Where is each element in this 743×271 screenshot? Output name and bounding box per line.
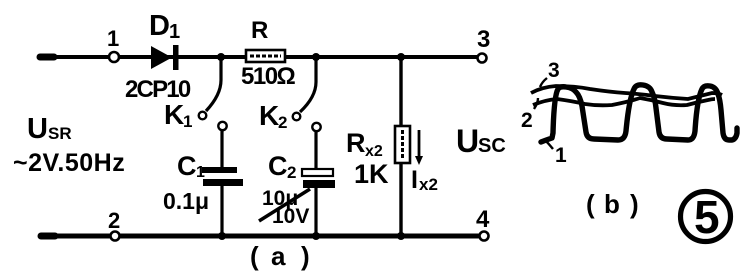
switch K2 xyxy=(259,57,321,132)
wire top rail xyxy=(40,55,480,59)
junction bottom C1 xyxy=(218,232,226,240)
wire C2 to bottom rail xyxy=(314,188,317,236)
svg-text:): ) xyxy=(301,241,310,271)
svg-text:b: b xyxy=(604,189,620,219)
current arrow Ix2 xyxy=(411,130,438,194)
svg-text:x2: x2 xyxy=(365,143,383,160)
svg-text:~2V.50Hz: ~2V.50Hz xyxy=(13,149,125,177)
label (b) xyxy=(586,189,639,219)
wire K1 to C1 xyxy=(220,130,223,167)
waveform label 3 xyxy=(540,59,560,87)
svg-text:a: a xyxy=(271,241,286,271)
svg-text:U: U xyxy=(456,123,479,159)
label (a) xyxy=(250,241,310,271)
capacitor C2 xyxy=(259,151,335,228)
node 4 xyxy=(480,232,489,241)
svg-text:10V: 10V xyxy=(272,205,309,228)
junction bottom C2 xyxy=(312,232,320,240)
label Usc xyxy=(456,123,506,159)
svg-text:2: 2 xyxy=(108,208,120,233)
svg-text:510Ω: 510Ω xyxy=(241,63,296,90)
resistor Rx2 xyxy=(346,126,410,189)
resistor R xyxy=(241,17,296,90)
diode D1 xyxy=(125,10,191,103)
wire bottom rail xyxy=(40,234,482,239)
svg-text:1: 1 xyxy=(196,164,205,181)
svg-text:1: 1 xyxy=(107,26,119,51)
svg-text:R: R xyxy=(251,17,268,44)
svg-text:2: 2 xyxy=(521,109,533,132)
svg-text:0.1μ: 0.1μ xyxy=(163,188,209,214)
wire C1 to bottom rail xyxy=(220,186,223,236)
svg-text:C: C xyxy=(268,151,288,181)
svg-text:1: 1 xyxy=(555,144,567,167)
waveform curve 1 pulses xyxy=(541,85,737,142)
svg-text:4: 4 xyxy=(476,206,490,233)
waveform label 1 xyxy=(544,139,567,167)
svg-text:(: ( xyxy=(586,189,595,219)
figure number 5 xyxy=(681,191,731,243)
svg-text:): ) xyxy=(630,189,639,219)
svg-text:R: R xyxy=(346,128,366,158)
svg-text:3: 3 xyxy=(477,26,490,53)
node 3 xyxy=(478,54,487,63)
wire top rail left end blob xyxy=(40,54,54,61)
junction bottom Rx2 xyxy=(397,232,405,240)
label Usr xyxy=(27,113,72,145)
wire K2 to C2 xyxy=(314,131,317,169)
svg-text:U: U xyxy=(27,113,48,145)
switch K1 xyxy=(164,57,227,131)
svg-text:C: C xyxy=(177,151,197,181)
svg-text:x2: x2 xyxy=(419,175,438,194)
svg-text:I: I xyxy=(411,166,418,194)
node 2 xyxy=(111,232,120,241)
junction top Rx2 xyxy=(397,53,405,61)
svg-text:1: 1 xyxy=(183,112,192,131)
svg-text:1: 1 xyxy=(169,21,180,43)
svg-text:(: ( xyxy=(250,241,259,271)
svg-text:2: 2 xyxy=(278,113,287,132)
svg-text:SR: SR xyxy=(48,124,72,143)
svg-text:3: 3 xyxy=(548,59,560,82)
waveform curve 3 xyxy=(531,86,722,99)
junction top K1 xyxy=(217,53,225,61)
junction top K2 xyxy=(312,53,320,61)
svg-text:K: K xyxy=(259,100,279,131)
waveform curve 2 xyxy=(533,98,715,105)
waveform label 2 xyxy=(521,98,538,132)
svg-text:D: D xyxy=(149,10,170,42)
wire Rx2 branch xyxy=(399,57,402,236)
svg-text:5: 5 xyxy=(694,191,720,243)
capacitor C1 xyxy=(163,151,243,214)
wire bottom rail left end blob xyxy=(41,233,55,240)
svg-text:2: 2 xyxy=(287,163,296,182)
svg-text:SC: SC xyxy=(478,135,506,157)
svg-text:1K: 1K xyxy=(354,159,389,189)
svg-text:K: K xyxy=(164,99,184,130)
node 1 xyxy=(109,52,119,62)
